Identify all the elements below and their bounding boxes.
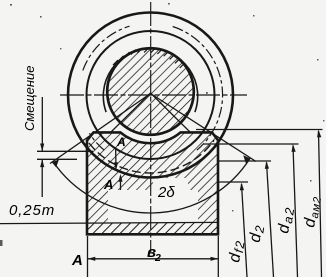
right extension lines <box>196 129 323 131</box>
dash-dot pitch circle (R72) <box>83 26 223 150</box>
horizontal centerline <box>60 94 247 96</box>
gorge arc over worm (R47.5) <box>103 49 197 112</box>
outer circle (wheel outside, R82.5) <box>68 13 233 178</box>
svg-text:0,25m: 0,25m <box>9 202 55 219</box>
2-delta dimension arc <box>53 158 250 213</box>
svg-text:A: A <box>71 252 83 269</box>
svg-text:Смещение: Смещение <box>22 66 37 131</box>
dam2 dimension line <box>319 131 322 277</box>
svg-text:A: A <box>116 135 126 149</box>
2-delta arc left arrow <box>52 159 59 167</box>
offset dimension (Smeshchenie) <box>37 150 93 152</box>
worm section hatching <box>105 45 197 137</box>
da2 dimension line <box>293 146 298 277</box>
inner solid circle (R64) <box>87 31 215 159</box>
wheel rim outline <box>87 132 218 234</box>
df2 dimension line <box>242 184 248 277</box>
b2 dimension <box>87 236 89 277</box>
vertical centerline <box>150 2 152 252</box>
delta ray right <box>151 94 257 162</box>
2-delta arc right arrow <box>243 155 250 163</box>
delta ray left <box>50 94 151 164</box>
rim section hatching <box>80 125 225 240</box>
worm circle <box>107 48 194 135</box>
svg-text:2δ: 2δ <box>157 184 175 201</box>
rim bottom strip hatching <box>88 223 217 234</box>
45deg lines from worm center <box>111 93 151 133</box>
svg-text:2: 2 <box>154 252 161 264</box>
worm crescent hatch ticks <box>113 47 185 68</box>
d2 dimension line <box>267 163 274 277</box>
rim joint line + 0.25m leader <box>0 222 218 223</box>
svg-text:A: A <box>103 177 113 192</box>
hidden dashed arc through rim (R78) <box>89 140 214 173</box>
